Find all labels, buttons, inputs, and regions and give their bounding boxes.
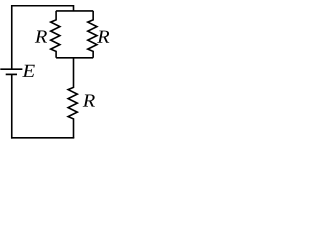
resistor R left parallel branch bbox=[51, 11, 60, 58]
resistor R right parallel branch bbox=[88, 11, 97, 58]
wire top (battery to parallel bank feed) bbox=[11, 5, 74, 7]
battery E short plate bbox=[6, 73, 17, 75]
wire left side (battery top lead) bbox=[11, 5, 13, 69]
wire bottom bbox=[11, 137, 74, 139]
battery E long plate bbox=[0, 68, 22, 70]
wire parallel bank top bar bbox=[56, 10, 93, 12]
wire left side (battery bottom lead) bbox=[11, 74, 13, 138]
label R (series resistor) bbox=[83, 94, 95, 106]
label R (left parallel resistor) bbox=[35, 30, 47, 42]
resistor R series branch bbox=[68, 58, 77, 138]
label R (right parallel resistor) bbox=[97, 31, 109, 43]
label E (battery) bbox=[22, 65, 35, 77]
wire feed drop into parallel bank top bar bbox=[73, 5, 75, 11]
wire parallel bank bottom bar bbox=[56, 57, 93, 59]
